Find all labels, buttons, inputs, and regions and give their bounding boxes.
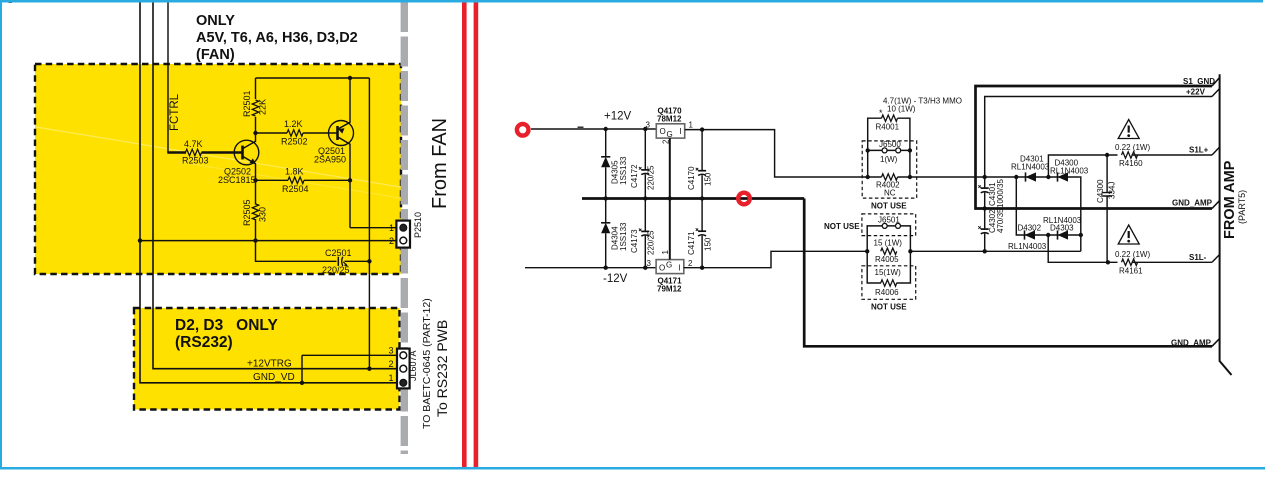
capacitor C4302 [978,208,1005,254]
svg-text:78M12: 78M12 [657,115,682,124]
bus FROM AMP [1212,74,1232,375]
svg-text:334J: 334J [1108,182,1117,199]
svg-text:C2501: C2501 [325,248,352,258]
svg-text:NC: NC [884,189,896,198]
svg-text:2: 2 [389,359,394,369]
wire +12 regulated out [685,130,868,177]
svg-text:G: G [667,130,673,139]
node GND_AMP mid label [1172,199,1213,208]
capacitor C4170 [687,127,713,200]
svg-text:S1L-: S1L- [1189,253,1207,262]
transistor Q2501 [314,78,354,228]
svg-text:R4005: R4005 [875,255,899,264]
net label +22V [1186,88,1206,97]
svg-text:RL1N4003: RL1N4003 [1043,216,1082,225]
svg-text:R2501: R2501 [242,90,252,117]
resistor R4006 [867,251,910,296]
svg-text:O: O [660,127,666,136]
svg-text:FCTRL: FCTRL [169,93,181,131]
wire GND_VD vertical from top [140,0,400,383]
resistor R4005 [865,238,1081,263]
svg-text:I: I [679,264,681,273]
wire S1L- [1048,235,1212,275]
yellow highlight box FAN circuit [35,64,401,274]
svg-text:150: 150 [704,172,713,186]
capacitor C4301 [978,177,1005,211]
svg-text:R2502: R2502 [281,137,308,147]
svg-text:1SS133: 1SS133 [619,156,628,185]
svg-text:220/25: 220/25 [322,265,350,275]
node +12VTRG label [247,359,292,370]
diode D4300 [1050,159,1089,182]
svg-text:R2504: R2504 [282,184,309,194]
resistor R2504 [253,167,352,195]
resistor R2503 [182,139,243,166]
node GND_AMP bottom label [1171,339,1212,348]
capacitor C4172 [630,127,656,201]
svg-text:(RS232): (RS232) [175,334,233,351]
node FCTRL label [169,93,181,131]
svg-text:+22V: +22V [1186,88,1206,97]
svg-text:GND_AMP: GND_AMP [1172,199,1213,208]
resistor R2501 [242,78,268,133]
yellow highlight box RS232 [134,308,400,410]
wire +22V [983,97,1213,180]
jumper J6501 [867,216,910,252]
svg-text:+12V: +12V [604,111,632,123]
ring mark input [517,124,529,136]
svg-text:220/25: 220/25 [647,165,656,190]
wire S1_GND thick [976,86,1213,209]
svg-text:3: 3 [389,346,394,356]
svg-text:22K: 22K [258,99,268,115]
svg-text:R4006: R4006 [875,288,899,297]
svg-text:79M12: 79M12 [657,285,682,294]
wire ground row [138,238,400,242]
diode D4303 [1043,216,1082,240]
svg-text:2: 2 [389,236,394,246]
svg-text:1000/35: 1000/35 [996,179,1005,208]
wire top rail [256,76,370,80]
svg-text:C4172: C4172 [630,164,639,188]
NOT USE box R4006 [862,266,916,312]
svg-text:GND_VD: GND_VD [253,372,295,383]
regulator U Q4170 78M12 [646,107,694,201]
svg-text:C4170: C4170 [687,166,696,190]
resistor R4002 [866,150,913,197]
label To RS232 PWB [434,320,450,417]
svg-text:J6501: J6501 [878,216,900,225]
NOT USE box upper [862,141,917,211]
svg-text:1(W): 1(W) [880,155,898,164]
svg-text:150: 150 [704,237,713,251]
svg-text:TO BAETC-0645 (PART-12): TO BAETC-0645 (PART-12) [421,298,433,429]
svg-text:1: 1 [389,223,394,233]
svg-text:To RS232 PWB: To RS232 PWB [434,320,450,417]
svg-text:S1L+: S1L+ [1189,146,1209,155]
resistor R2505 [242,199,268,240]
resistor R4001 [868,115,910,150]
node GND_VD label [253,372,295,383]
net label S1L- [1189,253,1207,262]
label From FAN [429,118,451,209]
capacitor C2501 [256,241,370,275]
net label S1_GND [1183,77,1215,86]
NOT USE box J6501 [824,214,916,236]
svg-text:2: 2 [688,259,693,268]
svg-text:0.22 (1W): 0.22 (1W) [1115,143,1150,152]
svg-text:I: I [680,127,682,136]
label 4.7(1W) - T3/H3 MMO [879,97,962,119]
wire +12 drop to P2510/J L607A [367,78,371,371]
ring mark GND [738,193,750,205]
svg-text:O: O [659,264,665,273]
svg-text:330: 330 [258,207,268,222]
resistor R2502 [256,119,338,147]
svg-text:GND_AMP: GND_AMP [1171,339,1212,348]
wire +12V rail [531,111,656,130]
svg-text:(PART5): (PART5) [1237,190,1247,224]
wire diode return vertical [1079,177,1083,251]
svg-text:2SA950: 2SA950 [314,155,346,165]
border left blue [0,0,2,470]
capacitor C4300 [1096,155,1117,262]
title text ONLY A5V... [196,13,358,63]
wire thick GND down to amp [804,199,1212,347]
svg-text:R4001: R4001 [876,123,900,132]
label FROM AMP [1222,160,1247,239]
svg-text:1: 1 [389,373,394,383]
svg-text:-12V: -12V [603,273,628,285]
capacitor C4173 [630,199,656,270]
title text D2,D3 ONLY (RS232) [175,317,278,351]
svg-text:+12VTRG: +12VTRG [247,359,292,370]
connector P2510 [350,212,423,248]
svg-text:G: G [666,261,672,270]
regulator U Q4171 79M12 [647,199,694,294]
wire -12 regulated out [684,251,867,267]
wire to right of R4002 [910,176,1080,178]
transistor Q2502 [218,133,259,205]
border top blue [0,0,1263,3]
gray PWB boundary dashed bar [401,2,408,454]
svg-text:2SC1815: 2SC1815 [218,175,256,185]
svg-text:0.22 (1W): 0.22 (1W) [1115,250,1150,259]
svg-text:D4302: D4302 [1018,224,1042,233]
svg-text:15(1W): 15(1W) [875,268,902,277]
svg-text:NOT USE: NOT USE [871,202,907,211]
wire -12V rail [525,268,656,285]
svg-text:3: 3 [647,259,652,268]
svg-text:S1_GND: S1_GND [1183,77,1215,86]
svg-text:1SS133: 1SS133 [619,222,628,251]
svg-text:C4300: C4300 [1096,179,1105,203]
warning triangle lower [1118,225,1139,244]
svg-text:220/25: 220/25 [647,230,656,255]
svg-text:D2, D3 ONLY: D2, D3 ONLY [175,317,278,334]
svg-text:RL1N4003: RL1N4003 [1008,242,1047,251]
svg-text:NOT USE: NOT USE [824,222,860,231]
svg-text:C4173: C4173 [630,229,639,253]
diode D4304 [601,199,628,270]
wire mid GND thick [582,197,804,200]
node collector junction [253,131,257,135]
svg-text:NOT USE: NOT USE [871,303,907,312]
svg-text:FROM AMP: FROM AMP [1222,160,1238,239]
svg-text:JL607A: JL607A [408,350,418,381]
svg-text:From FAN: From FAN [429,118,451,209]
svg-text:R2505: R2505 [242,199,252,226]
label TO BAETC-0645 (PART-12) [421,298,433,429]
svg-text:R4160: R4160 [1119,159,1143,168]
diode D4301 [1011,155,1051,182]
svg-text:1.2K: 1.2K [284,119,303,129]
svg-text:R2503: R2503 [182,156,209,166]
wire +12VTRG vertical from top [153,0,400,369]
svg-text:RL1N4003: RL1N4003 [1050,167,1089,176]
net label S1L+ [1189,146,1209,155]
svg-text:1: 1 [661,250,670,255]
svg-text:470/35: 470/35 [996,208,1005,233]
svg-text:10 (1W): 10 (1W) [887,105,916,114]
svg-text:15 (1W): 15 (1W) [874,238,903,247]
connector JL607A [300,346,418,389]
svg-text:C4171: C4171 [687,231,696,255]
svg-text:A5V, T6, A6, H36, D3,D2: A5V, T6, A6, H36, D3,D2 [196,30,358,46]
diode D4302 [1008,224,1050,252]
svg-text:4.7K: 4.7K [184,139,203,149]
red separator double line [462,2,478,467]
wire FCTRL vertical from top [167,0,186,153]
capacitor C4171 [687,199,713,270]
svg-text:ONLY: ONLY [196,13,235,29]
svg-text:1: 1 [689,121,694,130]
svg-text:3: 3 [646,121,651,130]
svg-text:RL1N4003: RL1N4003 [1011,163,1050,172]
svg-text:P2510: P2510 [413,212,423,238]
jumper J6500 [866,140,913,164]
svg-text:R4161: R4161 [1119,266,1143,275]
svg-text:(FAN): (FAN) [196,47,235,63]
border bottom blue [0,467,1265,470]
svg-text:1.8K: 1.8K [285,167,304,177]
warning triangle upper [1118,120,1139,139]
diode D4305 [601,127,628,201]
wire S1L+ [1048,143,1212,177]
wire lower diode row [1016,177,1081,235]
